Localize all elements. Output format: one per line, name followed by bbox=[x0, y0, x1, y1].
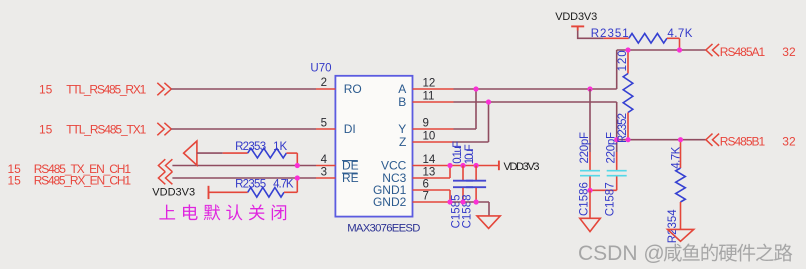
svg-text:U70: U70 bbox=[310, 63, 331, 75]
pin 14 VCC stub and wire to power bbox=[413, 165, 499, 167]
wire Y jog vertical bbox=[475, 89, 477, 129]
svg-text:MAX3076EESD: MAX3076EESD bbox=[347, 223, 420, 235]
junction B tee bbox=[614, 137, 619, 142]
capacitor C1587 lower lead bbox=[616, 176, 618, 190]
junction C1588/GND bbox=[474, 199, 479, 204]
note text "上电默认关闭" (purple) bbox=[159, 204, 286, 220]
op-amp U70 IC body MAX3076 bbox=[335, 76, 412, 217]
wire from ground triangle to R2353 bbox=[197, 152, 223, 154]
svg-text:VDD3V3: VDD3V3 bbox=[555, 11, 597, 23]
svg-text:3: 3 bbox=[321, 166, 327, 178]
wire VDD3V3 to R2355 bbox=[209, 191, 248, 193]
svg-text:220pF: 220pF bbox=[605, 132, 617, 164]
pin 5 DI stub bbox=[316, 128, 335, 130]
svg-text:CSDN @: CSDN @ bbox=[578, 242, 665, 265]
wire Z jog vertical bbox=[488, 102, 490, 142]
svg-text:RS485B1: RS485B1 bbox=[720, 135, 766, 149]
ground symbol (caps) bbox=[580, 218, 601, 231]
wire GND corner bbox=[488, 202, 490, 216]
capacitor C1587 plates bbox=[607, 170, 627, 172]
pin 13 NC3 stub bbox=[413, 177, 451, 179]
svg-text:14: 14 bbox=[423, 154, 436, 166]
svg-text:Y: Y bbox=[398, 122, 406, 136]
wire DE net bbox=[172, 165, 316, 167]
svg-text:15: 15 bbox=[39, 82, 53, 96]
ground symbol (IC GND) bbox=[477, 216, 500, 229]
svg-text:10uF: 10uF bbox=[464, 144, 476, 164]
junction B1 / R2354 bbox=[678, 137, 683, 142]
svg-text:7: 7 bbox=[423, 190, 429, 202]
wire DI net bbox=[171, 128, 316, 130]
wire RE net bbox=[172, 177, 316, 179]
svg-text:VDD3V3: VDD3V3 bbox=[504, 161, 540, 173]
wire to ground bbox=[589, 190, 591, 218]
svg-text:TTL_RS485_TX1: TTL_RS485_TX1 bbox=[66, 122, 146, 136]
wire GND2 run bbox=[454, 201, 490, 203]
svg-text:RO: RO bbox=[344, 82, 362, 96]
pin 9 Y stub bbox=[413, 128, 454, 130]
junction C1588/VCC bbox=[474, 163, 479, 168]
wire GND1 dropper to GND2 bbox=[449, 190, 451, 202]
svg-text:4.7K: 4.7K bbox=[667, 28, 692, 40]
junction GND1/GND2 bbox=[447, 199, 452, 204]
junction NC3/VCC bbox=[447, 163, 452, 168]
port chevron RS485_RX_EN_CH1 bbox=[158, 172, 172, 185]
wire A riser bbox=[616, 50, 618, 89]
junction R2352 bottom bbox=[625, 137, 630, 142]
capacitor C1586 220pF upper lead bbox=[589, 89, 591, 152]
wire B net from pin 11 bbox=[454, 101, 617, 103]
resistor R2353 1K bbox=[223, 148, 298, 165]
svg-text:4: 4 bbox=[321, 154, 328, 166]
pin 4 DE stub bbox=[316, 165, 335, 167]
wire A top run to port bbox=[617, 49, 706, 51]
svg-text:1K: 1K bbox=[273, 141, 287, 153]
svg-text:12: 12 bbox=[423, 77, 436, 89]
svg-text:220pF: 220pF bbox=[579, 132, 591, 164]
capacitor C1586 lower lead bbox=[589, 176, 591, 190]
wire VDD3V3 corner to R2351 bbox=[578, 31, 604, 39]
junction A/C1586 bbox=[587, 86, 592, 91]
wire Y horizontal bbox=[454, 128, 477, 130]
svg-text:6: 6 bbox=[423, 178, 429, 190]
junction C1585/GND bbox=[460, 199, 465, 204]
pin 10 Z stub bbox=[413, 141, 454, 143]
svg-text:B: B bbox=[398, 95, 406, 109]
pin 7 GND2 stub bbox=[413, 201, 454, 203]
wire C1587 bottom link bbox=[590, 189, 617, 191]
svg-text:11: 11 bbox=[423, 90, 435, 102]
svg-text:R2355: R2355 bbox=[235, 178, 266, 190]
resistor R2355 4.7K bbox=[248, 178, 298, 197]
svg-text:VDD3V3: VDD3V3 bbox=[152, 187, 195, 199]
ground symbol (R2354) bbox=[668, 229, 694, 241]
svg-text:13: 13 bbox=[423, 166, 436, 178]
port chevron RS485_TX_EN_CH1 bbox=[158, 159, 172, 172]
svg-text:R2351: R2351 bbox=[591, 28, 629, 40]
svg-text:DI: DI bbox=[344, 122, 356, 136]
svg-text:9: 9 bbox=[423, 117, 429, 129]
port chevron RS485A1 bbox=[706, 44, 719, 56]
svg-text:32: 32 bbox=[782, 45, 796, 59]
port chevron RS485B1 bbox=[706, 134, 719, 146]
pin 11 B stub bbox=[413, 101, 454, 103]
svg-text:C1586: C1586 bbox=[579, 182, 591, 216]
capacitor C1585 0.1uF bbox=[453, 166, 473, 203]
wire NC3 riser to VCC bbox=[449, 165, 451, 178]
svg-text:120: 120 bbox=[617, 50, 629, 71]
junction A/Y bbox=[473, 86, 478, 91]
svg-text:4.7K: 4.7K bbox=[273, 178, 294, 190]
svg-text:15: 15 bbox=[39, 122, 53, 136]
capacitor C1586 plates bbox=[580, 170, 600, 172]
wire B dropper bbox=[616, 102, 618, 152]
svg-text:TTL_RS485_RX1: TTL_RS485_RX1 bbox=[66, 82, 146, 96]
svg-text:4.7K: 4.7K bbox=[670, 146, 682, 168]
junction cap ground bbox=[587, 188, 592, 193]
svg-text:R2353: R2353 bbox=[235, 141, 266, 153]
ground symbol (rotated triangle) for R2353 bbox=[184, 141, 197, 165]
svg-text:15: 15 bbox=[7, 173, 21, 187]
pin 6 GND1 stub bbox=[413, 189, 451, 191]
wire RO net bbox=[171, 88, 316, 90]
capacitor C1587 220pF upper lead bbox=[616, 152, 618, 170]
junction C1585/VCC bbox=[460, 163, 465, 168]
svg-text:RS485A1: RS485A1 bbox=[720, 45, 766, 59]
junction A net / R2351 / port bbox=[677, 47, 682, 52]
svg-text:5: 5 bbox=[321, 117, 327, 129]
pin 2 RO stub bbox=[316, 88, 335, 90]
power port VDD3V3 (VCC bar) bbox=[498, 161, 500, 171]
svg-text:Z: Z bbox=[399, 135, 406, 149]
pin 12 A stub bbox=[413, 88, 454, 90]
junction on DE wire bbox=[295, 163, 300, 168]
resistor R2352 120 bbox=[623, 50, 633, 140]
port chevron TTL_RS485_RX1 bbox=[157, 83, 171, 96]
svg-text:2: 2 bbox=[321, 77, 327, 89]
wire B1 net horizontal bbox=[617, 139, 706, 141]
junction on RE wire bbox=[295, 175, 300, 180]
junction B/Z bbox=[486, 99, 491, 104]
resistor R2354 4.7K bbox=[676, 140, 686, 230]
svg-text:RS485_RX_EN_CH1: RS485_RX_EN_CH1 bbox=[34, 173, 132, 187]
capacitor C1588 10uF bbox=[466, 166, 486, 203]
svg-text:A: A bbox=[398, 82, 406, 96]
svg-text:C1587: C1587 bbox=[605, 182, 617, 216]
wire Z horizontal bbox=[454, 141, 489, 143]
port chevron TTL_RS485_TX1 bbox=[157, 123, 171, 136]
svg-text:10: 10 bbox=[423, 130, 436, 142]
wire A net from pin 12 bbox=[454, 88, 617, 90]
svg-text:GND2: GND2 bbox=[373, 195, 407, 209]
svg-text:32: 32 bbox=[782, 135, 796, 149]
junction R2352 top bbox=[625, 47, 630, 52]
pin 3 RE stub bbox=[316, 177, 335, 179]
resistor R2351 4.7K bbox=[604, 34, 680, 51]
svg-text:0.1uF: 0.1uF bbox=[452, 141, 464, 164]
